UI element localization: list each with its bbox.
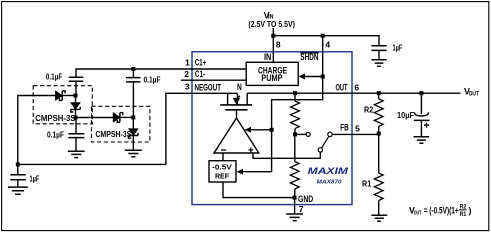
wire SHDN pin4 vertical and control path down to REF: [239, 36, 323, 172]
svg-text:OUT: OUT: [469, 91, 480, 98]
wire GND down through pin 7: [294, 198, 296, 214]
svg-text:6: 6: [354, 83, 359, 93]
wire arrow into op-amp: [249, 129, 272, 131]
svg-text:PUMP: PUMP: [261, 73, 282, 83]
node D3-D4 junction dot: [131, 115, 135, 119]
wire bottom NEGOUT rail: [18, 163, 166, 165]
node OUT R2 junction dot: [377, 91, 381, 95]
wire tap to switch contact: [295, 133, 306, 135]
svg-text:3: 3: [185, 81, 190, 91]
node cap2 top junction dot: [131, 67, 135, 71]
capacitor C bypass 1uF top right: [371, 44, 402, 60]
svg-text:MAXIM: MAXIM: [308, 166, 349, 176]
svg-text:0.1µF: 0.1µF: [46, 72, 63, 81]
svg-text:): ): [469, 206, 472, 216]
node VIN label: [248, 10, 295, 28]
node VOUT label: [464, 87, 479, 98]
svg-text:0.1µF: 0.1µF: [144, 76, 161, 85]
capacitor C2 0.1uF second: [126, 69, 161, 117]
svg-text:C1-: C1-: [195, 69, 205, 79]
diode D1 schottky horizontal: [56, 91, 76, 101]
svg-text:1: 1: [185, 58, 190, 68]
node SHDN/charge-pump junction dot: [321, 75, 325, 79]
capacitor C1 0.1uF top left: [46, 72, 84, 95]
resistor internal lower: [290, 136, 299, 197]
dashed package CMPSH-3S box 1: [33, 86, 92, 124]
wire arrow into REF box: [237, 169, 244, 175]
svg-text:CMPSH-3S: CMPSH-3S: [95, 130, 132, 139]
node FB divider dot: [377, 132, 381, 136]
wire pin3 NEGOUT line: [166, 93, 238, 164]
svg-text:1µF: 1µF: [30, 174, 40, 183]
node OUT divider dot: [293, 91, 297, 95]
switch contact A circle: [306, 132, 310, 136]
charge pump block: [246, 62, 298, 85]
op-amp U1: [214, 118, 259, 153]
svg-text:(2.5V TO 5.5V): (2.5V TO 5.5V): [248, 20, 295, 29]
svg-text:NEGOUT: NEGOUT: [195, 82, 222, 92]
node rail junction dot: [16, 162, 20, 166]
wire top rail from VIN to bypass cap: [273, 36, 379, 46]
node VIN junction dot: [271, 34, 275, 38]
capacitor C4 1uF left: [10, 164, 39, 186]
svg-text:10µF: 10µF: [397, 111, 414, 120]
svg-text:MAX870: MAX870: [317, 180, 343, 186]
svg-text:5: 5: [355, 124, 360, 134]
switch lever: [322, 136, 329, 148]
svg-text:OUT: OUT: [414, 210, 422, 216]
wire OUT line: [247, 92, 460, 94]
ground below pin 7: [286, 214, 303, 221]
svg-text:R1: R1: [460, 212, 467, 218]
transistor N MOSFET: [220, 82, 252, 118]
wire FB to external divider: [332, 133, 379, 135]
ground below D4: [125, 150, 142, 157]
svg-text:IN: IN: [264, 52, 271, 62]
ground below C4: [8, 187, 28, 194]
node GND dot: [293, 196, 297, 200]
IC box MAX870: [192, 52, 352, 205]
svg-text:8: 8: [276, 39, 281, 49]
svg-text:C1+: C1+: [195, 58, 206, 68]
capacitor C3 0.1uF below box1: [47, 118, 84, 151]
label SHDN with overline: [300, 52, 318, 62]
node D2 cathode junction dot: [74, 116, 78, 120]
svg-text:N: N: [237, 82, 242, 92]
wire VIN down to IN pin 8: [272, 28, 274, 62]
wire pin2 C1- stub: [181, 79, 246, 81]
resistor internal upper: [291, 93, 300, 134]
ground below C3: [68, 151, 85, 157]
wire arrow into charge pump: [303, 76, 323, 78]
formula VOUT equation: [409, 205, 472, 219]
node divider tap dot: [293, 132, 297, 136]
svg-text:2: 2: [184, 69, 189, 79]
svg-text:OUT: OUT: [336, 82, 348, 92]
svg-text:R2: R2: [364, 105, 373, 115]
node D1-D2 junction dot: [74, 94, 78, 98]
svg-text:1µF: 1µF: [393, 44, 403, 53]
svg-text:FB: FB: [340, 123, 349, 133]
ground below R1: [371, 215, 387, 221]
svg-text:R1: R1: [362, 178, 371, 188]
svg-text:REF: REF: [215, 172, 229, 181]
svg-text:GND: GND: [298, 194, 314, 204]
diode D4 schottky vertical: [129, 117, 139, 149]
svg-text:SHDN: SHDN: [300, 52, 318, 62]
resistor R1: [362, 134, 383, 215]
dashed package CMPSH-3S box 2: [92, 106, 150, 142]
svg-text:0.1µF: 0.1µF: [47, 131, 64, 140]
switch pivot B circle: [318, 148, 322, 152]
wire op-amp plus input to switch: [253, 152, 320, 158]
svg-text:= (-0.5V)(1+: = (-0.5V)(1+: [424, 206, 459, 216]
wire D2 to D3: [76, 117, 114, 119]
node feedback junction dot: [270, 128, 274, 132]
svg-text:CMPSH-3S: CMPSH-3S: [35, 114, 76, 123]
diode D3 schottky horizontal: [113, 113, 133, 123]
capacitor 10uF output: [397, 93, 430, 136]
node SHDN rail junction dot: [321, 34, 325, 38]
diode D2 schottky vertical: [71, 96, 81, 118]
wire D1 anode feed: [18, 96, 56, 165]
wire pin1 C1+ line: [76, 69, 246, 77]
ground below 10uF: [414, 137, 430, 144]
wire op-amp minus input to REF: [222, 153, 224, 161]
switch contact C circle: [328, 132, 332, 136]
node OUT 10uF junction dot: [419, 91, 423, 95]
logo MAXIM: [308, 166, 349, 186]
resistor R2: [364, 93, 383, 133]
wire REF bottom to GND node: [223, 182, 295, 198]
svg-text:4: 4: [325, 39, 330, 49]
block REF -0.5V: [209, 161, 236, 182]
svg-text:7: 7: [299, 204, 304, 214]
ground below bypass cap: [371, 60, 386, 66]
svg-text:-0.5V: -0.5V: [212, 163, 232, 172]
